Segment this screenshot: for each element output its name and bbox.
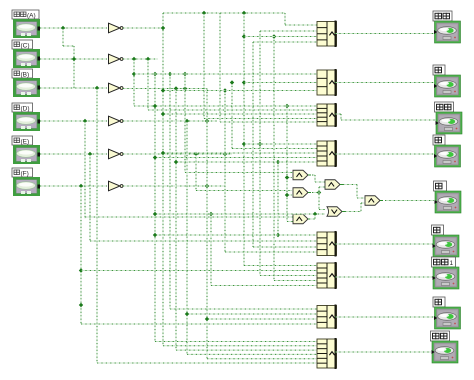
- wire x285 drop: [284, 13, 286, 25]
- wire vertical x274: [273, 37, 275, 281]
- junction x274 top: [272, 34, 276, 38]
- wire vertical x244: [243, 13, 245, 266]
- svg-text:(D): (D): [21, 106, 30, 113]
- wire AND-b out: [343, 184, 357, 186]
- junction x187 N7: [185, 312, 189, 316]
- wire N6 in1: [244, 265, 317, 267]
- indicator up label: [435, 102, 454, 112]
- junction x244 c: [242, 142, 246, 146]
- indicator door-open boolean indicator terminal: [434, 21, 461, 43]
- U-e AND gate: [365, 196, 383, 206]
- junction x148 top: [146, 57, 150, 61]
- wire N8 in3: [176, 349, 317, 351]
- NOT gate row D NOT gate: [109, 116, 124, 126]
- indicator right boolean indicator terminal: [433, 235, 460, 257]
- wire B to NOT: [40, 87, 107, 89]
- wire N5 out: [335, 243, 433, 245]
- junction x278 top: [276, 160, 280, 164]
- junction top bus 2: [242, 11, 246, 15]
- junction x170 top: [168, 72, 172, 76]
- wire N4 in5: [176, 161, 317, 163]
- wire N1 in2: [260, 30, 317, 32]
- wire vertical x134: [133, 59, 135, 106]
- junction x207 row F: [205, 184, 209, 188]
- junction x244 a: [242, 34, 246, 38]
- NOT gate row A NOT gate: [109, 23, 124, 33]
- wire vertical x163: [162, 13, 164, 346]
- junction x207 N7: [205, 317, 209, 321]
- wire N7 in4: [81, 323, 317, 325]
- node N8 compound AND node: [317, 338, 337, 369]
- wire N8 out: [335, 351, 431, 353]
- junction on C row: [72, 57, 76, 61]
- indicator Z boolean indicator terminal: [434, 145, 461, 167]
- node N7 compound AND node: [317, 305, 337, 330]
- wire b in2: [319, 186, 325, 188]
- junction x155 N4: [153, 155, 157, 159]
- wire N8 in6: [97, 362, 317, 364]
- junction x155 top: [153, 72, 157, 76]
- wire vertical x225: [224, 91, 226, 253]
- junction x176 row B: [174, 86, 178, 90]
- wire N2 out: [335, 82, 434, 84]
- junction D branch: [83, 119, 87, 123]
- wire vertical x187: [186, 121, 188, 354]
- wire NOT-E out: [123, 153, 232, 155]
- wire e in1: [357, 197, 365, 199]
- U-c AND gate: [293, 188, 311, 198]
- junction x155 N3: [153, 104, 157, 108]
- wire vertical x232: [231, 83, 233, 149]
- wire OR-d out: [345, 211, 361, 213]
- wire A branch down: [62, 28, 64, 46]
- wire e out to indicator center: [385, 200, 434, 202]
- junction x225 row E: [223, 152, 227, 156]
- wire N6 out: [335, 276, 433, 278]
- wire N8 in5: [207, 358, 317, 360]
- wire b-e riser: [356, 185, 358, 199]
- wire top bus: [163, 12, 285, 14]
- control E boolean control terminal: [13, 145, 40, 164]
- node N2 compound AND node: [317, 69, 337, 96]
- wire N6 in2: [81, 270, 317, 272]
- indicator down-arrow label: [431, 331, 450, 341]
- junction x232 top: [230, 80, 234, 84]
- junction x176 N4: [174, 160, 178, 164]
- wire AND-a in2: [287, 177, 292, 179]
- wire vertical x260: [259, 31, 261, 276]
- wire N7 out: [335, 316, 434, 318]
- NOT gate row B NOT gate: [109, 83, 124, 93]
- wire N4 out: [335, 153, 434, 155]
- junction B branch: [95, 86, 99, 90]
- node N1 compound AND node: [317, 21, 337, 48]
- junction x155 N5: [153, 233, 157, 237]
- svg-text:1: 1: [450, 260, 454, 267]
- wire vertical x207: [206, 89, 208, 359]
- junction x163 N2: [161, 88, 165, 92]
- wire AND-a out: [312, 174, 315, 176]
- wire vertical x176: [175, 89, 177, 351]
- wire A branch: [63, 45, 74, 47]
- wire N1 in3: [244, 36, 317, 38]
- indicator right label: [432, 225, 444, 235]
- wire A branch down2: [73, 46, 75, 88]
- control A boolean control terminal: [13, 19, 40, 38]
- junction x185 top: [183, 72, 187, 76]
- indicator door-open label: [433, 11, 452, 21]
- wire N4 in2: [232, 148, 317, 150]
- indicator down-1 label: [433, 65, 445, 75]
- svg-text:(B): (B): [21, 72, 30, 79]
- junction F branch: [79, 184, 83, 188]
- wire N7 in2: [187, 313, 317, 315]
- NOT gate row C NOT gate: [109, 54, 124, 64]
- wire AND-f in1: [85, 216, 293, 218]
- wire N2 in2: [244, 82, 317, 84]
- svg-text:(A): (A): [27, 13, 36, 20]
- indicator down-2 label: [433, 297, 445, 307]
- wire NOT-D out: [123, 120, 217, 122]
- wire NOT-F out: [123, 185, 225, 187]
- wire N4 in3: [163, 152, 317, 154]
- wire B branch long down: [96, 88, 98, 363]
- U-d OR OR gate: [327, 207, 345, 217]
- wire vertical x196: [195, 154, 197, 191]
- control C boolean control terminal: [13, 49, 40, 68]
- junction x287 top: [285, 104, 289, 108]
- wire NOT-B out: [123, 88, 207, 90]
- wire N3 in2: [148, 109, 317, 111]
- junction x260: [258, 142, 262, 146]
- wire N1 in1: [285, 24, 317, 26]
- indicator down-arrow boolean indicator terminal: [432, 341, 459, 363]
- indicator door-open-1 boolean indicator terminal: [433, 267, 460, 289]
- junction x163 N4: [161, 151, 165, 155]
- wire AND-c out: [312, 192, 319, 194]
- wire N1 in4: [253, 41, 317, 43]
- wire N3 in5: [220, 121, 317, 123]
- junction x134 top: [132, 57, 136, 61]
- wire d-e riser: [360, 203, 362, 212]
- wire N5 in3: [253, 246, 317, 248]
- wire N8 in4: [187, 353, 317, 355]
- junction x287 ANDa: [285, 175, 289, 179]
- junction f riser: [313, 212, 317, 216]
- junction x278 bottom: [276, 233, 280, 237]
- wire N2 in3: [163, 90, 317, 92]
- junction x196 top: [194, 152, 198, 156]
- svg-text:(E): (E): [21, 139, 30, 146]
- wire N3 hook: [340, 114, 342, 120]
- control F boolean control terminal: [13, 177, 40, 196]
- wire N4 in1: [244, 143, 317, 145]
- wire N4 in4: [155, 157, 317, 159]
- wire N8 in1: [155, 341, 317, 343]
- wire C to NOT: [40, 58, 107, 60]
- control A label: [12, 10, 39, 20]
- indicator up boolean indicator terminal: [436, 112, 463, 134]
- control E label: [12, 136, 33, 146]
- wire F to NOT: [40, 185, 107, 187]
- wire AND-a in1: [185, 172, 293, 174]
- wire N3 in1: [134, 105, 317, 107]
- junction x211 top: [209, 212, 213, 216]
- wire OR-d in2: [155, 213, 325, 215]
- wire A to NOT: [40, 27, 107, 29]
- wire b in1: [315, 181, 325, 183]
- control F label: [12, 168, 33, 178]
- node N6 compound AND node: [317, 262, 337, 289]
- wire N3 in4: [204, 118, 317, 120]
- junction x155 d-in2: [153, 212, 157, 216]
- indicator middle boolean indicator terminal: [435, 191, 462, 213]
- junction A branch: [61, 26, 65, 30]
- wire c riser: [318, 187, 320, 210]
- control B label: [12, 69, 33, 79]
- wire vertical x278: [277, 162, 279, 235]
- wire N8 in2: [163, 345, 317, 347]
- node N5 compound AND node: [317, 231, 337, 257]
- junction x225 top: [223, 88, 227, 92]
- wire N5 in2: [90, 240, 317, 242]
- wire D to NOT: [40, 120, 107, 122]
- wire N3 out: [341, 119, 436, 121]
- wire N7 in1: [170, 308, 317, 310]
- wire NOT-A out: [123, 27, 163, 29]
- wire vertical x170: [169, 74, 171, 309]
- junction x207 row D: [205, 119, 209, 123]
- wire a-b riser: [314, 175, 316, 182]
- wire d in1: [319, 209, 325, 211]
- wire vertical x253: [252, 42, 254, 247]
- indicator down-2 boolean indicator terminal: [434, 307, 461, 329]
- control C label: [12, 40, 33, 50]
- junction top bus: [202, 11, 206, 15]
- wire N5 in4: [225, 251, 317, 253]
- wire NOT-C out: [123, 58, 158, 60]
- wire vertical x204: [203, 13, 205, 119]
- control D boolean control terminal: [13, 112, 40, 131]
- wire vertical x287: [286, 106, 288, 222]
- junction x287 ANDc: [285, 193, 289, 197]
- indicator middle label: [434, 181, 447, 191]
- control D label: [12, 103, 33, 113]
- node N4 compound AND node: [317, 140, 337, 167]
- wire N1 out: [335, 33, 434, 35]
- U-a AND gate: [293, 170, 311, 180]
- wire AND-c in1: [196, 190, 292, 192]
- wire E branch down: [89, 154, 91, 241]
- wire AND-c in2: [287, 194, 292, 196]
- junction c out: [317, 190, 321, 194]
- wire vertical x220: [219, 13, 221, 122]
- junction F net: [79, 268, 83, 272]
- wire vertical x155: [154, 74, 156, 342]
- wire N3 in3: [163, 113, 317, 115]
- NOT gate row E NOT gate: [109, 149, 124, 159]
- U-b AND gate: [325, 180, 343, 190]
- svg-text:(F): (F): [21, 171, 29, 178]
- wire AND-f out: [309, 218, 315, 220]
- wire vertical x148: [147, 59, 149, 110]
- junction x185 row B: [183, 86, 187, 90]
- wire e in2: [361, 202, 365, 204]
- wire vertical x185: [184, 74, 186, 173]
- indicator door-open-1 label: [432, 257, 456, 267]
- junction x163 row A: [161, 26, 165, 30]
- wire F branch down: [80, 186, 82, 324]
- U-f AND gate: [293, 214, 311, 224]
- indicator Z label: [433, 135, 445, 145]
- wire N5 in1: [155, 234, 317, 236]
- wire N6 in3: [260, 275, 317, 277]
- junction E branch: [88, 152, 92, 156]
- NOT gate row F NOT gate: [109, 181, 124, 191]
- wire N7 in3: [207, 318, 317, 320]
- wire D branch down: [84, 121, 86, 219]
- wire N6 in5: [211, 285, 317, 287]
- junction x134: [132, 72, 136, 76]
- wire E to NOT: [40, 153, 107, 155]
- junction x187 top: [185, 119, 189, 123]
- junction x244 b: [242, 80, 246, 84]
- indicator down-1 boolean indicator terminal: [434, 75, 461, 97]
- wire N6 in4: [274, 280, 317, 282]
- junction x163 N3: [161, 112, 165, 116]
- wire vertical x211: [210, 214, 212, 286]
- svg-text:(C): (C): [21, 43, 30, 50]
- wire N3 out hook: [335, 113, 341, 115]
- wire AND-f in2: [287, 221, 293, 223]
- wire f riser: [314, 214, 316, 219]
- junction F net 2: [79, 303, 83, 307]
- control B boolean control terminal: [13, 78, 40, 97]
- node N3 compound AND node: [317, 103, 337, 127]
- wire N2 in1: [134, 73, 317, 75]
